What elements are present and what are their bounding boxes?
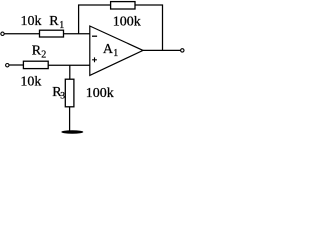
svg-text:100k: 100k xyxy=(86,86,114,101)
svg-text:100k: 100k xyxy=(113,14,141,29)
svg-text:3: 3 xyxy=(60,91,65,101)
svg-text:1: 1 xyxy=(113,48,118,59)
svg-text:R: R xyxy=(49,14,59,29)
svg-text:R: R xyxy=(32,44,42,59)
svg-text:2: 2 xyxy=(41,50,46,61)
svg-text:10k: 10k xyxy=(20,75,41,90)
svg-text:10k: 10k xyxy=(21,14,42,29)
svg-text:1: 1 xyxy=(59,20,64,31)
